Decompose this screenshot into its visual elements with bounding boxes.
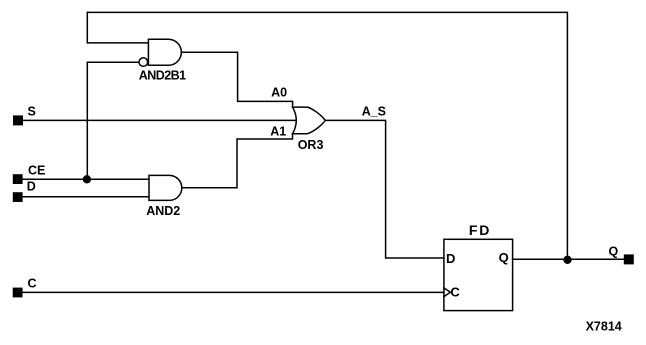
svg-text:AND2B1: AND2B1 — [139, 69, 186, 83]
wire AND2B1 output to OR3 input A0 — [181, 52, 292, 107]
svg-text:D: D — [27, 180, 36, 194]
wire FD Q output to pin Q — [513, 258, 624, 260]
svg-text:A_S: A_S — [362, 104, 386, 118]
gate OR3 — [293, 107, 326, 134]
wire CE to AND2 top input — [23, 178, 149, 180]
input pin CE — [13, 174, 23, 184]
wire Q feedback top border — [87, 12, 567, 258]
svg-text:S: S — [28, 105, 36, 119]
input pin D — [13, 192, 23, 202]
junction Q node — [563, 256, 571, 264]
wire CE riser to AND2B1 inverted input — [87, 62, 139, 179]
svg-text:CE: CE — [28, 164, 45, 178]
wire D to AND2 bottom input — [23, 196, 149, 198]
svg-text:A1: A1 — [270, 125, 286, 139]
svg-text:D: D — [446, 251, 455, 266]
svg-text:A0: A0 — [271, 86, 287, 100]
svg-text:C: C — [450, 285, 460, 300]
wire feedback to AND2B1 top input — [87, 12, 148, 43]
wire AND2 output to OR3 input A1 — [182, 134, 293, 188]
input pin C — [13, 288, 23, 298]
output pin Q — [624, 254, 634, 264]
bubble AND2B1 inverted input — [139, 58, 148, 67]
gate AND2B1 — [148, 39, 181, 65]
svg-text:FD: FD — [469, 222, 491, 238]
junction CE node — [83, 175, 91, 183]
svg-text:C: C — [28, 276, 37, 290]
wire S to OR3 middle input — [23, 119, 295, 121]
input pin S — [13, 115, 23, 125]
svg-text:X7814: X7814 — [586, 320, 622, 334]
svg-text:AND2: AND2 — [146, 204, 180, 218]
svg-text:Q: Q — [499, 250, 509, 265]
gate AND2 — [149, 175, 182, 200]
flip-flop FD box — [444, 239, 513, 310]
clock wedge FD pin C — [444, 288, 451, 297]
wire C to FD clock input — [23, 291, 444, 293]
svg-text:Q: Q — [609, 245, 619, 259]
wire OR3 output A_S to FD D input — [325, 120, 444, 258]
svg-text:OR3: OR3 — [298, 138, 324, 152]
